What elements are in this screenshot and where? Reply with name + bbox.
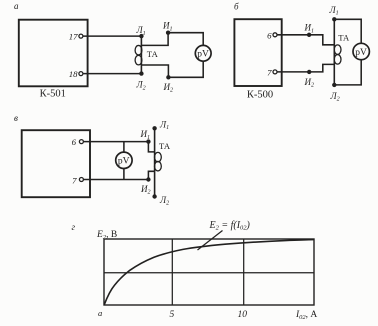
svg-text:ТА: ТА xyxy=(338,32,350,42)
transformer TA (v) primary bar xyxy=(154,128,156,196)
wire 18 to L2 xyxy=(83,73,141,75)
svg-text:ТА: ТА xyxy=(159,141,171,151)
terminal 6 (b) xyxy=(273,33,277,37)
device K-500 box xyxy=(234,19,281,86)
device box (v) xyxy=(22,130,90,197)
grid horizontal midline xyxy=(104,272,314,274)
svg-text:6: 6 xyxy=(72,137,77,147)
wire 17 to L1 xyxy=(83,35,141,37)
terminal 17 xyxy=(79,34,83,38)
wire I2 to pV (a) xyxy=(168,61,203,77)
wire I2 to winding bottom (v) xyxy=(148,171,154,179)
grid vertical at 5 xyxy=(171,239,173,305)
svg-text:I02, А: I02, А xyxy=(295,310,317,321)
svg-text:pV: pV xyxy=(118,157,130,167)
svg-text:10: 10 xyxy=(238,310,248,320)
svg-text:а: а xyxy=(98,308,102,318)
pV tap bottom (v) xyxy=(123,168,125,179)
svg-text:6: 6 xyxy=(267,31,272,41)
node I1 (v) xyxy=(146,139,150,143)
terminal 7 (b) xyxy=(273,70,277,74)
svg-text:К-500: К-500 xyxy=(247,90,273,101)
transformer TA (a) secondary winding xyxy=(135,45,142,55)
svg-text:pV: pV xyxy=(197,50,209,60)
svg-text:17: 17 xyxy=(69,31,78,41)
node L1 (v) xyxy=(152,126,156,130)
voltmeter pV (a) xyxy=(195,45,211,61)
svg-text:5: 5 xyxy=(170,310,175,320)
wire 7 to I2 (v) xyxy=(84,179,149,181)
transformer TA (b) primary bar xyxy=(333,19,335,85)
terminal 6 (v) xyxy=(79,140,83,144)
transformer TA (a) primary bar xyxy=(140,36,142,74)
grid vertical at 10 xyxy=(243,239,245,305)
wire I1 to pV (a) xyxy=(168,33,203,46)
voltmeter pV (v) xyxy=(116,152,132,168)
svg-text:7: 7 xyxy=(267,68,272,78)
node L2 (v) xyxy=(152,194,156,198)
node I1 (b) xyxy=(307,33,311,37)
node L2 (b) xyxy=(332,83,336,87)
wire secondary top to I1 xyxy=(141,33,168,46)
node L1 (b) xyxy=(332,17,336,21)
svg-text:а: а xyxy=(14,1,19,11)
svg-text:в: в xyxy=(14,113,18,123)
wire secondary bottom to I2 xyxy=(141,65,168,77)
svg-text:г: г xyxy=(72,222,76,232)
terminal 7 (v) xyxy=(79,178,83,182)
node L1 xyxy=(139,34,143,38)
curve E2=f(I02) xyxy=(104,240,314,305)
svg-text:ТА: ТА xyxy=(147,49,159,59)
graph frame xyxy=(104,239,314,305)
transformer TA (v) secondary winding xyxy=(155,152,162,162)
node I2 (v) xyxy=(146,177,150,181)
node L2 xyxy=(139,71,143,75)
wire I1 to winding top (v) xyxy=(148,142,154,152)
device K-501 box xyxy=(19,20,88,87)
wire 6 to I1 (v) xyxy=(84,141,149,143)
svg-text:pV: pV xyxy=(355,48,367,58)
node I1 (a) xyxy=(166,31,170,35)
wire L1 to pV (b) xyxy=(334,19,361,43)
wire 7 to winding bottom (b) xyxy=(277,64,334,72)
wire L2 to pV (b) xyxy=(334,60,361,85)
voltmeter pV (b) xyxy=(353,43,369,59)
svg-text:18: 18 xyxy=(69,69,78,79)
svg-text:К-501: К-501 xyxy=(40,89,66,100)
pV tap top (v) xyxy=(123,142,125,153)
node I2 (a) xyxy=(166,75,170,79)
wire 6 to winding top (b) xyxy=(277,35,334,45)
svg-text:7: 7 xyxy=(72,175,77,185)
transformer TA (b) secondary winding xyxy=(334,45,341,55)
leader line to curve xyxy=(198,231,223,251)
node I2 (b) xyxy=(307,70,311,74)
svg-text:б: б xyxy=(234,2,239,12)
terminal 18 xyxy=(79,72,83,76)
